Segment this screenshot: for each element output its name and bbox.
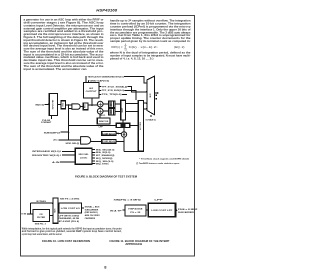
wire aux output row4 xyxy=(99,89,101,91)
wire bypass vertical xyxy=(30,203,32,214)
svg-text:(EQ. 2): (EQ. 2) xyxy=(174,46,185,49)
wire G1 to register R2 xyxy=(80,106,83,108)
svg-text:FIGURE 9. BLOCK DIAGRAM OF TES: FIGURE 9. BLOCK DIAGRAM OF TEST SYSTEM xyxy=(75,175,137,178)
and-gate G1 xyxy=(72,104,80,109)
svg-text:LPF WITH 3 MHZ: LPF WITH 3 MHZ xyxy=(59,215,80,217)
register LB2 coefficient xyxy=(102,139,116,143)
and-gate G2 xyxy=(81,137,91,145)
svg-text:SIGNAL + BUS: SIGNAL + BUS xyxy=(85,205,101,208)
register R4 pipeline xyxy=(116,123,130,127)
svg-text:ACC REG: ACC REG xyxy=(139,121,142,129)
wire aux output row3 xyxy=(99,86,101,88)
wire feedback horizontal to R4 xyxy=(69,125,117,127)
block low cost LPF B2 xyxy=(59,203,82,213)
adder A2 xyxy=(97,108,103,114)
svg-text:TFF_SYN_BUS(9:0): TFF_SYN_BUS(9:0) xyxy=(102,90,125,92)
svg-text:C(k) · x(n−k) 2ⁿ: C(k) · x(n−k) 2ⁿ xyxy=(129,45,158,49)
svg-text:TFS_TFS(9:0): TFS_TFS(9:0) xyxy=(102,94,123,96)
bottom-right diagram (figure 11) xyxy=(110,200,197,217)
wire control output 6 xyxy=(92,163,95,165)
register R2 xyxy=(83,103,88,110)
adder A3 xyxy=(121,132,126,137)
svg-text:SEE FIG. 2: SEE FIG. 2 xyxy=(35,223,46,225)
svg-text:MUX SEL: MUX SEL xyxy=(79,154,89,156)
wire R2 to adder A1 xyxy=(88,104,98,106)
wire T3 to mux input 4 xyxy=(144,108,147,110)
wire row1 to mux input1 xyxy=(124,76,145,83)
svg-text:CARRIERS: CARRIERS xyxy=(85,217,97,220)
svg-text:LPF: LPF xyxy=(99,126,103,128)
svg-text:HSP43168: HSP43168 xyxy=(96,8,117,12)
wire control output 5 xyxy=(92,160,95,162)
wire bottom to T3 xyxy=(124,151,141,153)
svg-text:M/Q_MODE(I): M/Q_MODE(I) xyxy=(96,158,113,160)
svg-text:M/Q_SEL(9:0): M/Q_SEL(9:0) xyxy=(96,161,114,163)
note text under figure 10 xyxy=(22,227,122,236)
svg-text:While interpolation, for this: While interpolation, for this typical pa… xyxy=(22,227,122,230)
wire B4 output xyxy=(176,209,177,211)
wire NCO input xyxy=(27,213,33,215)
svg-text:OUTA(9:0): OUTA(9:0) xyxy=(145,118,156,121)
block low cost LPF B4 xyxy=(148,203,175,216)
wire LB1 to A3 multiplier mark xyxy=(116,132,121,134)
wire T1 to register R1 xyxy=(58,103,62,105)
right column body text xyxy=(110,20,191,61)
svg-text:FILTER: FILTER xyxy=(37,217,46,219)
block HSP43168 B3 xyxy=(125,205,146,216)
equation EQ.2 xyxy=(111,44,185,52)
svg-text:FS/4 = 8 MHZ: FS/4 = 8 MHZ xyxy=(178,208,198,211)
wire R1 to AND gate G1 xyxy=(66,104,72,106)
mux M2 xyxy=(53,198,58,223)
wire A1 to A2 xyxy=(99,107,101,108)
svg-text:INPUT FMT: INPUT FMT xyxy=(53,99,55,109)
svg-text:and formed to give point as yi: and formed to give point as yielded, sev… xyxy=(22,230,122,233)
bottom-left diagram (figure 10) xyxy=(21,197,100,225)
wire T2 to T3 upper xyxy=(125,103,138,105)
svg-text:SUBCARRIER: SUBCARRIER xyxy=(85,208,100,211)
wire AUX OUTPUT down to main row xyxy=(91,98,93,105)
wire bypass horizontal xyxy=(31,202,53,204)
register T1 input format xyxy=(49,94,57,116)
svg-text:LOW COST 4.5: LOW COST 4.5 xyxy=(61,207,80,210)
wire G2 lower input xyxy=(58,139,80,141)
wire IN to input register xyxy=(45,103,49,105)
block SIN/COS S1 xyxy=(97,118,110,124)
mux M1 xyxy=(147,76,155,115)
node junction feedback tap xyxy=(68,104,70,106)
svg-text:input is accumulated. The accu: input is accumulated. The accumulator ca… xyxy=(24,68,88,71)
wire R3b to shifter T2 xyxy=(115,110,121,112)
svg-text:COEF B(9:0): COEF B(9:0) xyxy=(103,141,116,143)
svg-text:IN A TP: IN A TP xyxy=(110,209,123,212)
wire LB2 to vertical xyxy=(116,140,124,142)
wire control input 1 xyxy=(62,151,76,153)
svg-text:HSP43168: HSP43168 xyxy=(128,208,142,211)
svg-text:LOGIC: LOGIC xyxy=(80,158,89,160)
wire aux up arrow 1 xyxy=(85,76,87,82)
wire G2 to LB2 xyxy=(91,140,102,142)
wire mux input 1 xyxy=(145,82,147,84)
svg-text:APPROACH: APPROACH xyxy=(125,243,142,246)
svg-text:sample period given by its ter: sample period given by its terminal coun… xyxy=(110,40,191,43)
wire mux output right xyxy=(155,92,158,94)
wire A2 to register R3b xyxy=(103,110,109,112)
wire B3 to B4 xyxy=(146,209,148,211)
svg-text:AMS ON VIDEO: AMS ON VIDEO xyxy=(85,214,101,217)
adder A1 xyxy=(97,101,103,107)
svg-text:XIN FS = 4 MHZ: XIN FS = 4 MHZ xyxy=(60,197,80,200)
svg-text:FIGURE 11. BLOCK DIAGRAM OF TH: FIGURE 11. BLOCK DIAGRAM OF THE INTERP xyxy=(110,240,170,243)
wire aux output row5 xyxy=(99,93,101,95)
svg-text:MOD SEL(I): MOD SEL(I) xyxy=(66,143,80,145)
wire T3 to mux input 3 xyxy=(144,102,147,104)
svg-text:IN(9:0): IN(9:0) xyxy=(36,104,45,106)
svg-text:IOP(n) =: IOP(n) = xyxy=(111,46,123,49)
central block diagram (figure 9) xyxy=(32,76,189,166)
block AUX OUTPUT U1 xyxy=(84,83,100,98)
wire control output 4 xyxy=(92,157,95,159)
block control logic CB xyxy=(75,148,92,164)
block FIR filter B1 xyxy=(33,210,50,222)
wire R3a to shifter T2 xyxy=(115,103,121,105)
wire control output 2 xyxy=(92,151,95,153)
wire R4 to adder A3 xyxy=(123,128,125,132)
svg-text:XIN(FS) = 8 MHZ: XIN(FS) = 8 MHZ xyxy=(114,200,142,202)
wire mux bottom output xyxy=(150,115,152,117)
wire feedback vertical drop xyxy=(68,105,70,140)
svg-text:* Trim/float clock signals and: * Trim/float clock signals and EXPN divi… xyxy=(139,157,189,160)
svg-text:M/Q_SYNC: M/Q_SYNC xyxy=(96,164,110,166)
wire A3 down xyxy=(123,137,125,152)
wire row3 to mux input2 xyxy=(128,87,145,92)
wire control input 2 xyxy=(62,154,76,156)
svg-text:N: N xyxy=(125,44,126,46)
svg-text:REGISTER W(2:0) I: REGISTER W(2:0) I xyxy=(32,155,62,157)
wire SUBSAMPLE to feedback vertical xyxy=(61,131,69,133)
node bypass junction xyxy=(30,213,32,215)
wire control output 1 xyxy=(92,148,95,150)
wire row5 stub xyxy=(122,93,127,95)
wire T2 to R4 xyxy=(122,120,124,123)
svg-text:SUBCARRIER: SUBCARRIER xyxy=(178,211,195,214)
register T3 accumulator xyxy=(138,101,143,152)
register R3b xyxy=(109,108,115,115)
svg-text:LOW COST LPF: LOW COST LPF xyxy=(151,210,172,212)
svg-text:plexed of 4, i.e. 4, 8, 12, 16: plexed of 4, i.e. 4, 8, 12, 16 .... 2ʲ ) xyxy=(110,57,154,60)
svg-text:FS = 32: FS = 32 xyxy=(130,212,140,214)
svg-text:PULSE: PULSE xyxy=(42,120,50,122)
svg-text:SIN/COS: SIN/COS xyxy=(99,121,110,123)
wire stub to G1 lower input xyxy=(69,107,72,109)
svg-text:LPF: LPF xyxy=(154,200,162,202)
wire input to B3 xyxy=(122,209,124,211)
wire T1 bottom stub xyxy=(51,116,53,119)
svg-text:a priori loop; feed several tu: a priori loop; feed several tuners, and … xyxy=(22,233,62,236)
wire T2 to T3 lower xyxy=(125,110,138,112)
wire R4 to T3 xyxy=(130,125,138,127)
register R1 xyxy=(61,101,65,109)
wire row4 drop xyxy=(125,90,136,99)
register T2 shift xyxy=(121,100,126,120)
wire aux up arrow 2 xyxy=(88,81,90,83)
svg-text:(REF AUDIO): (REF AUDIO) xyxy=(85,211,99,214)
register LB1 coefficient xyxy=(102,132,116,136)
wire control input 3 xyxy=(60,161,75,163)
page border frame xyxy=(21,16,195,257)
svg-text:OUTPUT: OUTPUT xyxy=(86,91,98,93)
svg-text:FIGURE 10. LOW COST DECIMATION: FIGURE 10. LOW COST DECIMATION xyxy=(42,240,90,243)
svg-text:BYPASS: BYPASS xyxy=(37,200,48,203)
left column body text xyxy=(24,19,105,71)
svg-text:k=0: k=0 xyxy=(125,50,128,52)
register R3a xyxy=(109,101,115,108)
wire A2 to S1 xyxy=(99,114,101,118)
wire B1 to mux M2 xyxy=(49,215,53,217)
wire A1 to register R3a xyxy=(103,103,109,105)
node mux output marks xyxy=(156,95,157,96)
wire control output 3 xyxy=(92,154,95,156)
wire B2 output xyxy=(82,207,84,209)
wire mux input 2 xyxy=(145,91,147,93)
svg-text:(*) Two/NXR features mode stat: (*) Two/NXR features mode statistics ope… xyxy=(136,162,179,165)
